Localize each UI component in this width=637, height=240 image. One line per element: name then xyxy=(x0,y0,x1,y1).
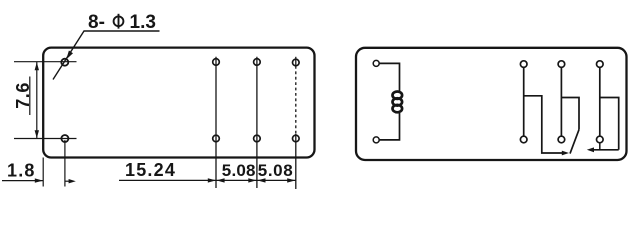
wire along bottom (pole 2) xyxy=(593,149,619,151)
arrow of 1.8 (tip at body edge) xyxy=(35,178,43,182)
extension line through hole P1 (7.6 top) xyxy=(14,61,77,63)
movable-contact arrow (pole 1) xyxy=(562,151,569,156)
wiring diagram outline (right) xyxy=(356,48,627,160)
contact terminal K3 (top) xyxy=(597,61,604,68)
wire K1 to K4 xyxy=(523,67,525,136)
svg-text:15.24: 15.24 xyxy=(125,160,176,180)
svg-text:8-: 8- xyxy=(88,12,105,33)
extension line through col-4 holes (dashed mid) xyxy=(295,57,297,189)
pin hole P6 (bottom, col 2) xyxy=(213,135,220,142)
label diameter symbol xyxy=(114,14,124,29)
small arrow right of hole-P2 extension xyxy=(65,179,76,183)
extension line below hole P2 xyxy=(64,140,66,187)
arrow pair first 5.08 xyxy=(216,178,256,182)
arrow of 15.24 (tip at col-2 line) xyxy=(208,178,216,182)
pin hole P8 (bottom, col 4) xyxy=(293,135,300,142)
contact terminal K4 (bottom) xyxy=(520,136,527,143)
dimension line 1.8 xyxy=(2,180,43,182)
contact terminal K5 (bottom) xyxy=(558,136,565,143)
wire branch from K1 to movable contact xyxy=(524,96,564,153)
dimension line 5.08 (second) xyxy=(257,179,296,181)
pin hole P3 (top, col 2) xyxy=(213,59,220,66)
svg-text:1.3: 1.3 xyxy=(130,12,156,33)
movable-contact arrow (pole 2) xyxy=(587,147,594,152)
contact blade (pole 1) xyxy=(570,130,579,154)
extension line through col-2 holes xyxy=(215,57,217,188)
wire from T1 to coil xyxy=(379,63,399,91)
extension line below body left edge xyxy=(42,158,44,187)
dimension line 15.24 xyxy=(119,179,216,181)
extension line through col-3 holes xyxy=(256,57,258,188)
leader arrowhead xyxy=(66,51,73,60)
contact terminal K1 (top) xyxy=(520,61,527,68)
svg-text:5.08: 5.08 xyxy=(258,161,294,180)
contact terminal K2 (top) xyxy=(558,61,565,68)
underline of label xyxy=(84,30,160,32)
svg-text:5.08: 5.08 xyxy=(222,161,256,180)
fixed contact stub from K2 xyxy=(561,98,579,130)
contact terminal K6 (bottom) xyxy=(597,136,604,143)
dimension line 5.08 (first) xyxy=(216,179,257,181)
wire K3 to K6 xyxy=(599,67,601,136)
svg-text:1.8: 1.8 xyxy=(7,161,36,181)
arrow pair second 5.08 xyxy=(257,178,295,182)
pin hole P7 (bottom, col 3) xyxy=(254,135,261,142)
pin hole P4 (top, col 3) xyxy=(254,59,261,66)
relay body outline (bottom view, left) xyxy=(43,48,314,158)
connector K6 to bottom wire xyxy=(599,143,601,150)
leader line to hole P1 xyxy=(53,31,84,80)
wire from coil to T2 xyxy=(379,113,399,140)
extension line through hole P2 (7.6 bottom) xyxy=(14,138,77,140)
pin hole P1 (top-left) xyxy=(61,59,68,66)
coil winding xyxy=(393,92,403,113)
wire K2 to K5 xyxy=(560,67,562,136)
fixed contact stub from K3 xyxy=(600,98,619,150)
coil terminal T1 (top) xyxy=(373,60,379,66)
pin hole P5 (top, col 4) xyxy=(293,59,300,66)
pin hole P2 (bottom-left) xyxy=(61,135,68,142)
underline of 7.6 text xyxy=(29,77,31,116)
dimension line 7.6 (vertical with arrows) xyxy=(35,62,39,138)
coil terminal T2 (bottom) xyxy=(373,137,379,143)
